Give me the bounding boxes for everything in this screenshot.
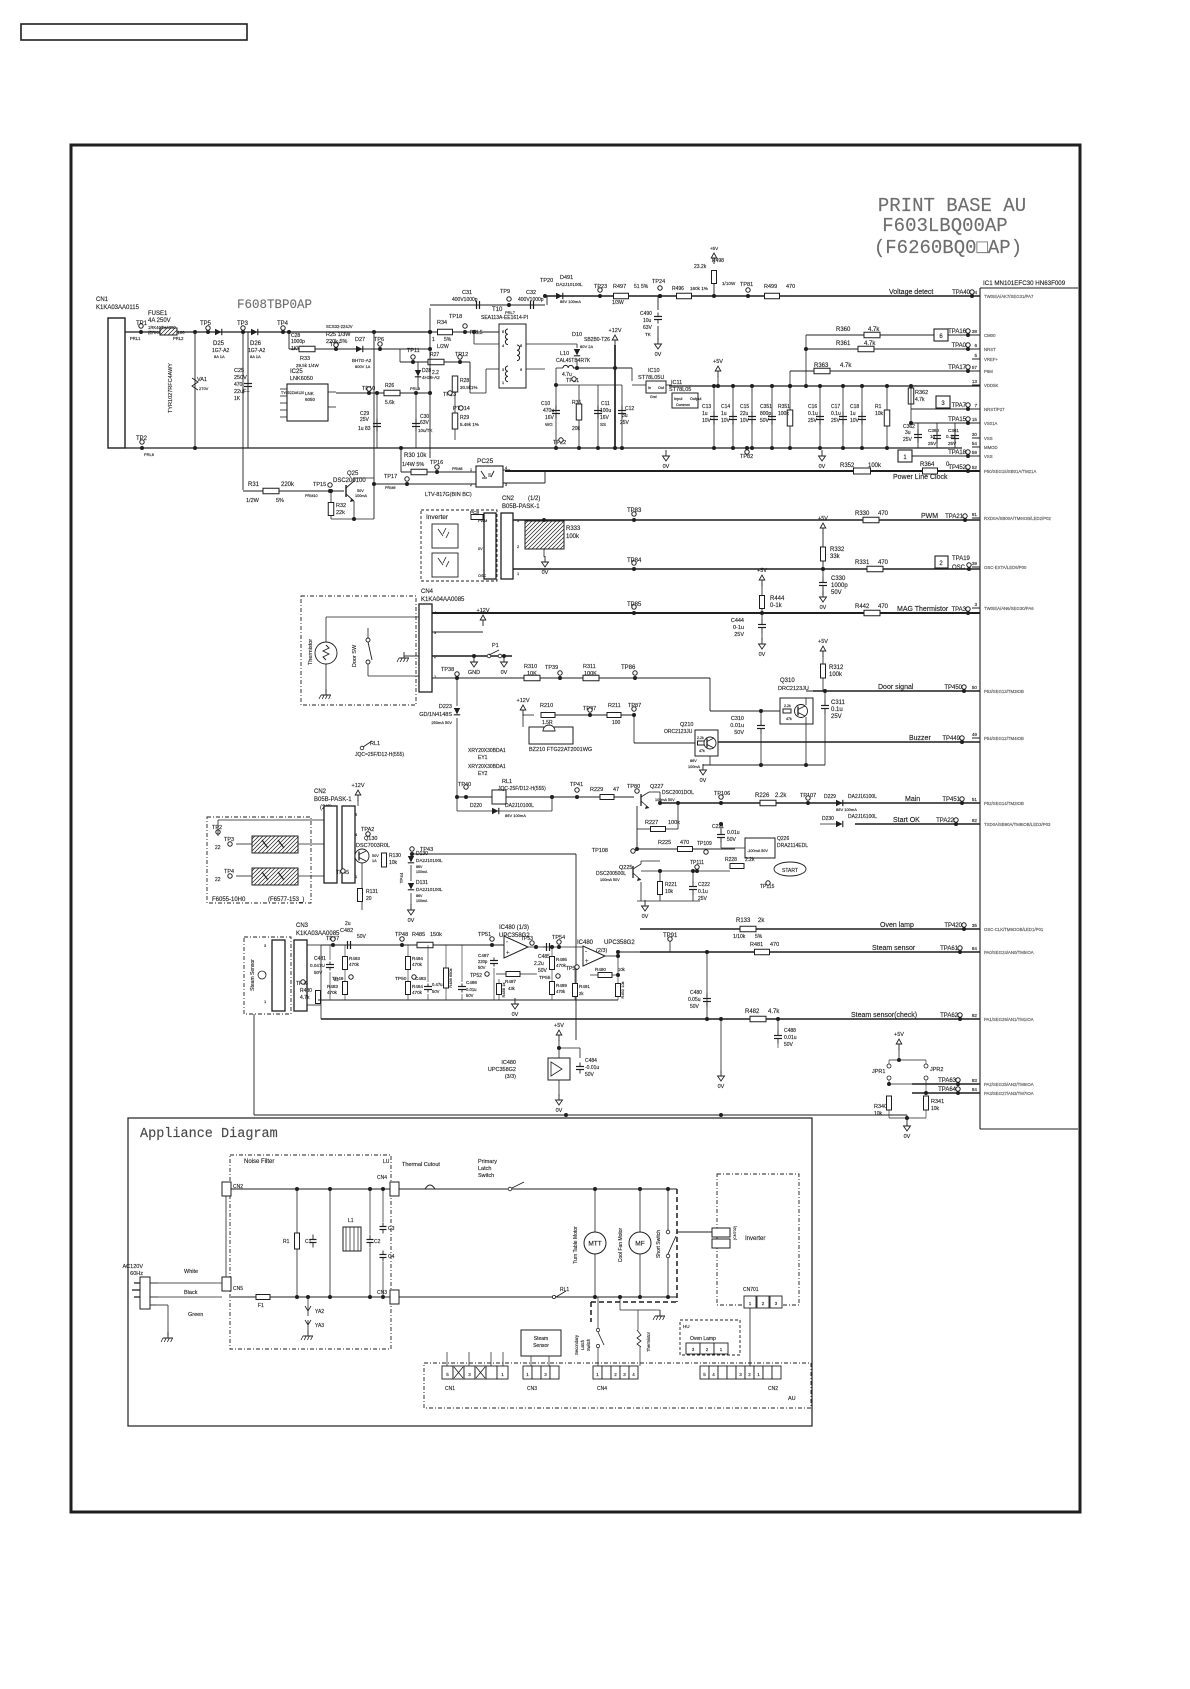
svg-text:51 5%: 51 5% [634, 284, 649, 290]
svg-text:(2/3): (2/3) [596, 948, 607, 954]
svg-text:C2: C2 [374, 1239, 381, 1245]
svg-text:CN3: CN3 [377, 1290, 387, 1296]
svg-text:86V 100mA: 86V 100mA [505, 813, 526, 818]
svg-text:R364: R364 [920, 462, 935, 468]
svg-text:JQC-25F/D12-H(555): JQC-25F/D12-H(555) [498, 786, 546, 792]
svg-text:TPA61: TPA61 [940, 946, 959, 952]
svg-text:R482: R482 [745, 1009, 760, 1015]
svg-text:DA2J16100L: DA2J16100L [848, 814, 877, 820]
svg-text:1/4W 5%: 1/4W 5% [402, 462, 424, 468]
svg-text:PRINT BASE AU: PRINT BASE AU [878, 195, 1026, 217]
svg-text:4.7k: 4.7k [840, 363, 852, 369]
svg-text:49: 49 [972, 732, 978, 737]
svg-text:R495: R495 [556, 957, 567, 962]
svg-text:R33: R33 [300, 356, 310, 362]
svg-text:R360: R360 [836, 327, 851, 333]
svg-text:3: 3 [974, 602, 977, 607]
svg-text:IC1 MN101EFC30 HN63F009: IC1 MN101EFC30 HN63F009 [983, 280, 1066, 287]
svg-text:Black: Black [184, 1290, 198, 1296]
svg-text:22u: 22u [740, 411, 749, 417]
svg-text:P6M: P6M [984, 369, 993, 374]
svg-text:470k: 470k [349, 962, 360, 967]
svg-text:38: 38 [972, 329, 978, 334]
svg-text:8: 8 [520, 344, 522, 348]
svg-text:30: 30 [972, 432, 978, 437]
svg-text:16V: 16V [600, 415, 610, 421]
svg-text:R210: R210 [540, 703, 553, 709]
svg-text:LTV-817G(BIN BC): LTV-817G(BIN BC) [425, 492, 472, 498]
svg-text:CN2: CN2 [502, 496, 515, 502]
svg-text:100mA 50V: 100mA 50V [600, 878, 620, 882]
svg-text:-100mA 50V: -100mA 50V [747, 849, 768, 853]
svg-text:2u: 2u [345, 921, 351, 927]
svg-text:2.2k: 2.2k [745, 857, 755, 863]
svg-text:START: START [782, 868, 798, 874]
svg-text:CN3: CN3 [296, 923, 309, 929]
svg-text:1u 83: 1u 83 [358, 426, 371, 432]
svg-text:16V: 16V [545, 415, 555, 421]
svg-text:15: 15 [972, 417, 978, 422]
svg-text:C361: C361 [948, 428, 959, 433]
svg-text:Q130: Q130 [364, 836, 377, 842]
svg-text:Steam: Steam [534, 1336, 548, 1342]
svg-text:TP41: TP41 [570, 782, 583, 788]
svg-text:150k: 150k [430, 932, 442, 938]
svg-text:23.2k: 23.2k [694, 264, 707, 270]
svg-text:R499: R499 [764, 284, 777, 290]
svg-text:0.1u: 0.1u [946, 434, 955, 439]
svg-text:BZ210 FTG22AT2001WG: BZ210 FTG22AT2001WG [529, 747, 592, 753]
svg-text:R496: R496 [672, 286, 684, 292]
svg-text:R229: R229 [590, 787, 603, 793]
svg-text:4H36-A2: 4H36-A2 [422, 375, 440, 380]
svg-text:TP420: TP420 [944, 923, 962, 929]
svg-text:DA2J10100L: DA2J10100L [416, 858, 443, 863]
svg-text:100k: 100k [868, 463, 882, 469]
svg-text:D220: D220 [470, 803, 482, 809]
svg-text:D229: D229 [824, 794, 836, 800]
svg-text:TPA22: TPA22 [936, 818, 955, 824]
svg-text:25V: 25V [903, 437, 913, 443]
svg-text:R28: R28 [460, 378, 469, 384]
svg-text:50V: 50V [478, 965, 486, 970]
svg-text:UPC358G2: UPC358G2 [604, 940, 635, 946]
svg-text:0.01u: 0.01u [784, 1035, 797, 1041]
svg-text:1: 1 [432, 337, 435, 343]
svg-text:63V: 63V [420, 420, 430, 426]
svg-text:0V: 0V [642, 914, 649, 920]
svg-text:GD/1N4148S: GD/1N4148S [419, 712, 452, 718]
svg-text:OSC: OSC [478, 574, 486, 578]
svg-text:IC10: IC10 [648, 368, 660, 374]
svg-text:C330: C330 [831, 576, 846, 582]
svg-text:R494: R494 [412, 956, 423, 961]
svg-text:NRST/P27: NRST/P27 [984, 407, 1005, 412]
svg-text:3u: 3u [905, 430, 911, 436]
svg-text:470: 470 [234, 382, 243, 388]
svg-text:PA0/SEG24/AN0/TM5IOA: PA0/SEG24/AN0/TM5IOA [984, 950, 1034, 955]
svg-text:Inverter: Inverter [745, 1236, 765, 1242]
svg-text:TP55: TP55 [539, 975, 551, 981]
svg-text:0V: 0V [501, 670, 508, 676]
svg-text:R225: R225 [658, 840, 671, 846]
svg-text:R30 10k: R30 10k [404, 453, 427, 459]
svg-text:1000p: 1000p [831, 583, 848, 589]
svg-text:Steam sensor: Steam sensor [872, 945, 916, 952]
svg-text:(F6577-153_): (F6577-153_) [268, 897, 304, 903]
svg-text:OSC: OSC [952, 565, 966, 571]
svg-text:D130: D130 [416, 851, 428, 857]
svg-text:R485: R485 [412, 932, 425, 938]
svg-text:D26: D26 [250, 341, 262, 347]
svg-text:470: 470 [878, 560, 889, 566]
svg-text:1/10k: 1/10k [733, 934, 746, 940]
svg-text:39: 39 [972, 561, 978, 566]
svg-text:R497: R497 [613, 284, 626, 290]
svg-text:D131: D131 [416, 880, 428, 886]
svg-text:470k: 470k [412, 962, 423, 967]
svg-text:30.9k1%: 30.9k1% [460, 385, 478, 390]
svg-text:R492 10k: R492 10k [620, 981, 625, 998]
svg-text:R211: R211 [608, 703, 621, 709]
svg-text:Main: Main [905, 796, 920, 803]
svg-text:(3/3): (3/3) [505, 1074, 516, 1080]
svg-text:470k: 470k [327, 990, 338, 995]
svg-text:DRC2123JU: DRC2123JU [778, 686, 809, 692]
svg-text:10k: 10k [665, 889, 674, 895]
svg-text:C221: C221 [712, 824, 724, 830]
svg-text:TPA21: TPA21 [945, 514, 964, 520]
svg-text:Voltage detect: Voltage detect [889, 289, 933, 296]
svg-text:C488: C488 [784, 1028, 796, 1034]
svg-text:50V: 50V [831, 590, 842, 596]
svg-text:0V: 0V [820, 605, 827, 611]
svg-text:TP109: TP109 [697, 841, 712, 847]
svg-text:In: In [648, 386, 651, 390]
svg-text:0.47u: 0.47u [432, 982, 443, 987]
svg-text:Q226: Q226 [777, 836, 789, 842]
svg-text:86V: 86V [690, 759, 697, 763]
svg-text:OSC-EXTA/LED6/P00: OSC-EXTA/LED6/P00 [984, 565, 1027, 570]
svg-text:0V: 0V [819, 464, 826, 470]
svg-text:10k: 10k [618, 967, 626, 972]
svg-text:CAL45TB4R7K: CAL45TB4R7K [556, 358, 591, 364]
svg-text:C222: C222 [698, 882, 710, 888]
svg-text:C482: C482 [340, 928, 353, 934]
svg-text:VSS: VSS [984, 436, 993, 441]
svg-text:R442: R442 [855, 604, 870, 610]
svg-text:UPC358G2: UPC358G2 [488, 1067, 516, 1073]
svg-text:Thermistor: Thermistor [308, 639, 314, 665]
svg-text:0.01u: 0.01u [466, 987, 477, 992]
svg-text:K1KA04AA0085: K1KA04AA0085 [421, 597, 465, 603]
svg-text:PRL2: PRL2 [173, 336, 184, 341]
svg-text:IC480 (1/3): IC480 (1/3) [499, 925, 529, 931]
svg-text:C487: C487 [478, 953, 489, 958]
svg-text:DSC7003R0L: DSC7003R0L [356, 843, 390, 849]
svg-text:R363: R363 [814, 363, 829, 369]
svg-text:0V: 0V [700, 778, 707, 784]
svg-text:R490: R490 [595, 967, 606, 972]
svg-text:XRY20X30BDA1: XRY20X30BDA1 [468, 764, 506, 770]
svg-text:TPA3: TPA3 [951, 607, 966, 613]
svg-text:PA1/SEG26/AN1/TM1IOA: PA1/SEG26/AN1/TM1IOA [984, 1017, 1034, 1022]
svg-text:50V: 50V [357, 934, 367, 940]
svg-text:0V: 0V [556, 1108, 563, 1114]
svg-text:OSC-CLK/TM9OOB/LED1/P01: OSC-CLK/TM9OOB/LED1/P01 [984, 927, 1044, 932]
svg-text:R444: R444 [770, 596, 785, 602]
svg-text:C484: C484 [585, 1058, 597, 1064]
svg-text:54: 54 [972, 441, 978, 446]
svg-text:0V: 0V [663, 464, 670, 470]
svg-text:DSC200100: DSC200100 [333, 478, 366, 484]
svg-text:400V1000p: 400V1000p [518, 297, 544, 303]
svg-text:Turn Table Motor: Turn Table Motor [573, 1226, 579, 1264]
svg-text:R226: R226 [755, 793, 770, 799]
svg-text:LNK6050: LNK6050 [290, 376, 313, 382]
svg-text:R1: R1 [875, 404, 882, 410]
svg-text:R27: R27 [430, 352, 439, 358]
svg-text:DA2J10100L: DA2J10100L [556, 282, 583, 287]
svg-text:C17: C17 [831, 404, 840, 410]
svg-text:TPA64: TPA64 [938, 1087, 957, 1093]
svg-text:Out: Out [658, 386, 665, 390]
svg-text:R340: R340 [874, 1104, 887, 1110]
svg-text:R362: R362 [915, 390, 928, 396]
svg-text:PWM: PWM [478, 519, 487, 523]
svg-text:PRM9: PRM9 [385, 486, 396, 490]
svg-text:Common: Common [676, 403, 690, 407]
svg-text:C3: C3 [388, 1226, 395, 1232]
svg-text:63V: 63V [643, 325, 653, 331]
svg-text:IC25: IC25 [290, 369, 303, 375]
svg-text:TP451: TP451 [942, 797, 960, 803]
svg-text:IC480: IC480 [501, 1060, 516, 1066]
svg-text:Switch: Switch [478, 1173, 494, 1179]
svg-text:R489: R489 [556, 983, 567, 988]
svg-text:5.6k: 5.6k [385, 400, 395, 406]
svg-text:R25 1/3W: R25 1/3W [326, 332, 351, 338]
svg-text:R131: R131 [366, 889, 378, 895]
svg-text:AU: AU [788, 1396, 796, 1402]
svg-text:SCS32-224JV: SCS32-224JV [326, 324, 353, 329]
svg-text:R480: R480 [300, 988, 312, 994]
svg-text:+5V: +5V [894, 1032, 904, 1038]
svg-text:Oven lamp: Oven lamp [880, 922, 914, 929]
svg-text:R310: R310 [524, 664, 537, 670]
svg-text:VS01A: VS01A [984, 421, 998, 426]
svg-text:RXD0A/SB00A/TM9IOB/LED2/P02: RXD0A/SB00A/TM9IOB/LED2/P02 [984, 516, 1051, 521]
svg-text:83: 83 [972, 1078, 978, 1083]
svg-text:2.2k: 2.2k [697, 736, 704, 740]
svg-text:D230: D230 [822, 816, 834, 822]
svg-text:R133: R133 [736, 918, 751, 924]
svg-text:GND: GND [468, 670, 480, 676]
svg-text:RL1: RL1 [370, 741, 380, 747]
svg-text:DA2J10100L: DA2J10100L [416, 887, 443, 892]
svg-text:0V: 0V [718, 1084, 725, 1090]
svg-text:TP11: TP11 [407, 348, 420, 354]
svg-text:470k: 470k [556, 963, 567, 968]
svg-text:Thermistor: Thermistor [646, 1331, 651, 1352]
svg-text:CN4: CN4 [377, 1175, 387, 1181]
svg-text:Oven Lamp: Oven Lamp [690, 1336, 716, 1342]
svg-text:0-1k: 0-1k [770, 603, 783, 609]
svg-text:R221: R221 [665, 882, 677, 888]
svg-text:Secondary: Secondary [574, 1334, 579, 1355]
svg-text:ST78L05: ST78L05 [669, 387, 691, 393]
svg-text:R312: R312 [829, 665, 844, 671]
svg-text:LNK: LNK [305, 391, 314, 396]
svg-text:JPR2: JPR2 [930, 1067, 943, 1073]
svg-text:TY052ZA6120: TY052ZA6120 [281, 391, 304, 395]
svg-text:84: 84 [972, 946, 978, 951]
svg-text:R483: R483 [327, 984, 338, 989]
svg-text:C486: C486 [466, 980, 477, 985]
svg-text:Q25: Q25 [347, 471, 359, 477]
svg-text:TPA7: TPA7 [951, 403, 966, 409]
svg-text:470: 470 [786, 284, 795, 290]
svg-text:6: 6 [502, 330, 504, 334]
svg-text:6: 6 [974, 343, 977, 348]
svg-text:VREF+: VREF+ [984, 357, 998, 362]
svg-text:400V1000p: 400V1000p [452, 297, 478, 303]
svg-text:TPA19: TPA19 [952, 556, 971, 562]
svg-text:TK: TK [645, 332, 652, 337]
svg-text:+5V: +5V [757, 568, 767, 574]
svg-text:10k: 10k [389, 860, 398, 866]
svg-text:R331: R331 [855, 560, 870, 566]
svg-text:Steam Sensor: Steam Sensor [250, 959, 256, 991]
svg-text:Sensor: Sensor [533, 1343, 549, 1349]
svg-text:IC11: IC11 [671, 380, 682, 386]
svg-text:PRL7: PRL7 [505, 310, 516, 315]
svg-text:100mA: 100mA [416, 870, 428, 874]
svg-text:C14: C14 [721, 404, 730, 410]
svg-text:+5V: +5V [554, 1023, 564, 1029]
svg-text:0V: 0V [655, 352, 662, 358]
svg-text:22k: 22k [336, 510, 345, 516]
svg-text:C444: C444 [731, 618, 744, 624]
svg-text:-: - [585, 949, 587, 955]
svg-text:0V: 0V [512, 1012, 519, 1018]
svg-text:L10: L10 [560, 351, 569, 357]
svg-text:60Hz: 60Hz [130, 1271, 143, 1277]
svg-text:57: 57 [972, 365, 978, 370]
svg-text:50V: 50V [432, 989, 440, 994]
svg-text:MF: MF [635, 1241, 644, 1248]
svg-text:50V: 50V [538, 968, 548, 974]
svg-text:270V: 270V [199, 386, 209, 391]
svg-text:JPR1: JPR1 [872, 1069, 885, 1075]
svg-text:47k: 47k [699, 749, 705, 753]
svg-text:CN2: CN2 [314, 789, 327, 795]
svg-text:1: 1 [470, 468, 472, 472]
svg-text:25V: 25V [360, 417, 370, 423]
svg-text:Q210: Q210 [680, 722, 693, 728]
svg-text:100: 100 [612, 720, 621, 726]
svg-text:50V: 50V [372, 854, 379, 858]
svg-text:4.7k: 4.7k [300, 995, 310, 1001]
svg-text:8A 1A: 8A 1A [250, 354, 261, 359]
svg-text:80V 2A: 80V 2A [580, 344, 593, 349]
svg-text:Steam sensor(check): Steam sensor(check) [851, 1012, 917, 1019]
svg-text:5%: 5% [755, 934, 763, 940]
svg-text:R464: R464 [412, 984, 423, 989]
svg-text:CN3: CN3 [527, 1386, 537, 1392]
svg-text:L1: L1 [348, 1218, 354, 1224]
svg-text:13: 13 [972, 379, 978, 384]
svg-text:C351: C351 [760, 404, 772, 410]
svg-text:R29: R29 [460, 415, 469, 421]
svg-text:TP24: TP24 [652, 279, 665, 285]
svg-text:R35: R35 [572, 400, 581, 406]
svg-text:Appliance Diagram: Appliance Diagram [140, 1127, 278, 1142]
svg-text:PRL3: PRL3 [410, 386, 421, 391]
svg-text:1/10W: 1/10W [722, 281, 736, 286]
svg-text:1/3W: 1/3W [612, 300, 624, 306]
svg-text:TPA16: TPA16 [948, 329, 967, 335]
svg-text:ST78L05U: ST78L05U [638, 375, 664, 381]
svg-text:86V 100mA: 86V 100mA [836, 807, 857, 812]
svg-text:B05B-PASK-1: B05B-PASK-1 [314, 797, 352, 803]
svg-text:R493: R493 [349, 956, 360, 961]
svg-text:4.7k: 4.7k [768, 1009, 780, 1015]
svg-text:Door signal: Door signal [878, 684, 914, 691]
svg-text:PRL1: PRL1 [130, 336, 141, 341]
svg-text:TP44: TP44 [399, 872, 404, 883]
svg-text:C310: C310 [731, 716, 744, 722]
svg-text:Gnd: Gnd [650, 395, 657, 399]
svg-text:+5V: +5V [818, 516, 828, 522]
svg-text:R228: R228 [725, 857, 737, 863]
svg-text:0.1u: 0.1u [808, 411, 818, 417]
svg-text:29.5k 1/4W: 29.5k 1/4W [296, 363, 320, 368]
svg-text:TPA17: TPA17 [948, 365, 967, 371]
svg-text:CN5: CN5 [233, 1286, 243, 1292]
svg-text:100mA: 100mA [355, 494, 367, 498]
svg-text:TP450: TP450 [944, 685, 962, 691]
svg-text:CN1: CN1 [96, 297, 109, 303]
svg-text:R1: R1 [283, 1239, 290, 1245]
svg-text:YA2: YA2 [315, 1309, 324, 1315]
svg-text:PRM10: PRM10 [305, 494, 318, 498]
svg-text:D10: D10 [572, 332, 582, 338]
svg-text:22uF+: 22uF+ [234, 389, 250, 395]
svg-text:5: 5 [974, 353, 977, 358]
svg-text:TP452: TP452 [948, 465, 966, 471]
svg-text:50V: 50V [357, 489, 364, 493]
svg-text:Power Line Clock: Power Line Clock [893, 474, 948, 481]
svg-text:25V: 25V [831, 714, 842, 720]
svg-text:IC480: IC480 [577, 940, 594, 946]
svg-text:C10: C10 [541, 401, 550, 407]
svg-text:470k: 470k [412, 990, 423, 995]
svg-text:CN1: CN1 [445, 1386, 455, 1392]
svg-text:4: 4 [502, 344, 504, 348]
svg-text:Start OK: Start OK [893, 817, 920, 824]
svg-text:0V: 0V [759, 652, 766, 658]
svg-text:50V: 50V [784, 1042, 794, 1048]
svg-text:22: 22 [215, 845, 221, 851]
svg-text:D27: D27 [355, 337, 365, 343]
svg-text:51: 51 [972, 797, 978, 802]
svg-text:TPA63: TPA63 [938, 1078, 957, 1084]
svg-text:R311: R311 [583, 664, 596, 670]
svg-text:10K: 10K [527, 671, 537, 677]
svg-text:TW0IEA/AK7/SEG31/PA7: TW0IEA/AK7/SEG31/PA7 [984, 294, 1034, 299]
svg-text:R488 1k: R488 1k [501, 983, 506, 998]
